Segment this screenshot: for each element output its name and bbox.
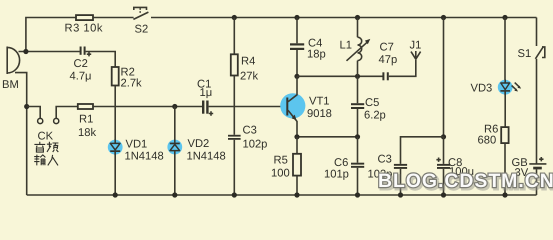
inductor L1 [340, 18, 371, 61]
node top rail R4 [232, 15, 237, 20]
svg-text:1N4148: 1N4148 [187, 151, 226, 163]
svg-text:1μ: 1μ [200, 87, 213, 99]
svg-text:9018: 9018 [307, 108, 332, 120]
wire C2 to R2 [86, 52, 116, 68]
node collector [294, 74, 299, 79]
node VD2 top [172, 104, 177, 109]
resistor R5 [271, 137, 301, 180]
node bottom C3 [232, 192, 237, 197]
svg-text:4.7μ: 4.7μ [70, 71, 92, 83]
wire battery to bottom rail corner [536, 169, 538, 195]
connector CK [38, 118, 59, 142]
svg-text:VT1: VT1 [309, 96, 330, 108]
diode VD2 1N4148 [167, 107, 225, 163]
svg-text:C3: C3 [243, 125, 257, 137]
wire C3b to bottom rail [400, 169, 402, 195]
capacitor C3 bottom right [368, 153, 408, 180]
resistor R4 [231, 18, 259, 83]
watermark BLOG.CDSTM.CN [378, 170, 553, 194]
capacitor C3 102p [228, 125, 267, 151]
wire BM bottom lead [15, 73, 27, 107]
capacitor C8 [436, 137, 474, 178]
node top rail L1 [355, 15, 360, 20]
resistor R1 [78, 104, 97, 139]
svg-text:R1: R1 [79, 114, 93, 126]
wire top rail to C8 node [443, 18, 445, 137]
wire collector to L1 bottom [297, 75, 383, 77]
svg-text:R5: R5 [274, 155, 288, 167]
svg-text:101p: 101p [324, 169, 349, 181]
node C8 top [441, 134, 446, 139]
label 输入 [34, 155, 58, 166]
svg-text:27k: 27k [240, 70, 258, 82]
wire CK right to R1 [56, 107, 78, 119]
node emitter [294, 134, 299, 139]
capacitor C2 [70, 47, 92, 83]
node L1 bottom [355, 74, 360, 79]
wire C6 to bottom rail [357, 168, 359, 195]
wire C5 to emitter wire [357, 109, 359, 137]
svg-text:S1: S1 [518, 48, 532, 60]
svg-text:C7: C7 [380, 42, 394, 54]
capacitor C5 [351, 76, 386, 121]
wire top rail left segment [26, 18, 76, 52]
wire C4 to collector node [296, 50, 298, 76]
node bottom R5 [294, 192, 299, 197]
node top rail C4 [294, 15, 299, 20]
capacitor C4 [290, 18, 326, 61]
node bottom C8 [441, 192, 446, 197]
node top rail VD3 [502, 15, 507, 20]
wire R4 to C3 [233, 76, 235, 135]
svg-text:VD2: VD2 [188, 138, 210, 150]
svg-text:C2: C2 [74, 58, 88, 70]
wire C3 to bottom rail [233, 140, 235, 195]
wire VD3 branch [504, 18, 506, 83]
svg-text:18k: 18k [78, 127, 96, 139]
wire C1 to VT1 base [209, 106, 287, 108]
LED VD3 [471, 80, 522, 96]
node bottom VD1 [113, 192, 118, 197]
wire VD2 to bottom rail [174, 151, 176, 195]
node C6 top [355, 134, 360, 139]
wire right edge top [536, 18, 538, 47]
node bottom C3b [398, 192, 403, 197]
wire C8 node to C3b [401, 137, 444, 164]
svg-text:L1: L1 [340, 40, 352, 52]
svg-text:6.2p: 6.2p [364, 110, 386, 122]
svg-text:R4: R4 [241, 56, 255, 68]
svg-text:C3: C3 [378, 153, 392, 165]
wire BM top lead [19, 51, 80, 53]
resistor R2 [112, 67, 142, 90]
svg-text:2.7k: 2.7k [121, 78, 143, 90]
wire R5 to bottom rail [296, 176, 298, 195]
svg-text:CK: CK [38, 131, 54, 143]
svg-text:680: 680 [478, 135, 497, 147]
battery GB [512, 157, 547, 179]
switch S2 [133, 7, 148, 35]
svg-text:BM: BM [2, 79, 19, 91]
wire emitter to C6 node [297, 136, 358, 138]
wire R6 to bottom rail [504, 143, 506, 195]
diode VD1 1N4148 [108, 139, 164, 163]
antenna J1 [410, 40, 422, 60]
node bottom C6 [355, 192, 360, 197]
svg-text:BLOG.CDSTM.CN: BLOG.CDSTM.CN [378, 170, 553, 192]
capacitor C7 [379, 42, 398, 81]
capacitor C6 [324, 137, 364, 181]
svg-text:J1: J1 [410, 40, 422, 52]
svg-text:102p: 102p [243, 139, 268, 151]
node BM top [23, 49, 28, 54]
node bottom R6 [502, 192, 507, 197]
wire to CK jack [27, 107, 41, 119]
svg-text:C5: C5 [365, 97, 379, 109]
svg-text:1N4148: 1N4148 [125, 151, 164, 163]
wire VD3 to R6 [504, 92, 506, 127]
svg-text:VD1: VD1 [126, 139, 148, 151]
svg-text:VD3: VD3 [471, 83, 493, 95]
capacitor C1 [197, 79, 213, 116]
wire R3 to S2 [93, 17, 134, 19]
svg-text:47p: 47p [379, 54, 398, 66]
wire C8 to bottom rail [443, 169, 445, 195]
wire R1 to C1 [93, 106, 202, 108]
node top rail C8 branch [441, 15, 446, 20]
wire C7 to antenna [389, 60, 416, 77]
wire S1 to battery [536, 59, 538, 164]
wire left vertical to bottom rail [26, 107, 28, 196]
resistor R6 [478, 124, 509, 147]
svg-text:100: 100 [271, 168, 290, 180]
node CK left [24, 104, 29, 109]
svg-text:S2: S2 [135, 24, 149, 36]
svg-text:18p: 18p [307, 49, 326, 61]
label 音频 [34, 142, 58, 152]
node bottom VD2 [172, 192, 177, 197]
switch S1 [518, 47, 545, 60]
svg-text:R3 10k: R3 10k [65, 23, 103, 35]
wire L1 to collector wire [357, 61, 359, 77]
resistor R3 [65, 15, 103, 34]
svg-text:C6: C6 [334, 157, 348, 169]
wire R2 to VD1 [114, 86, 116, 144]
microphone BM [2, 47, 20, 92]
transistor VT1 9018 [280, 76, 332, 137]
wire VD1 to bottom rail [114, 152, 116, 195]
wire top rail main [151, 17, 537, 19]
wire bottom rail [27, 194, 537, 196]
